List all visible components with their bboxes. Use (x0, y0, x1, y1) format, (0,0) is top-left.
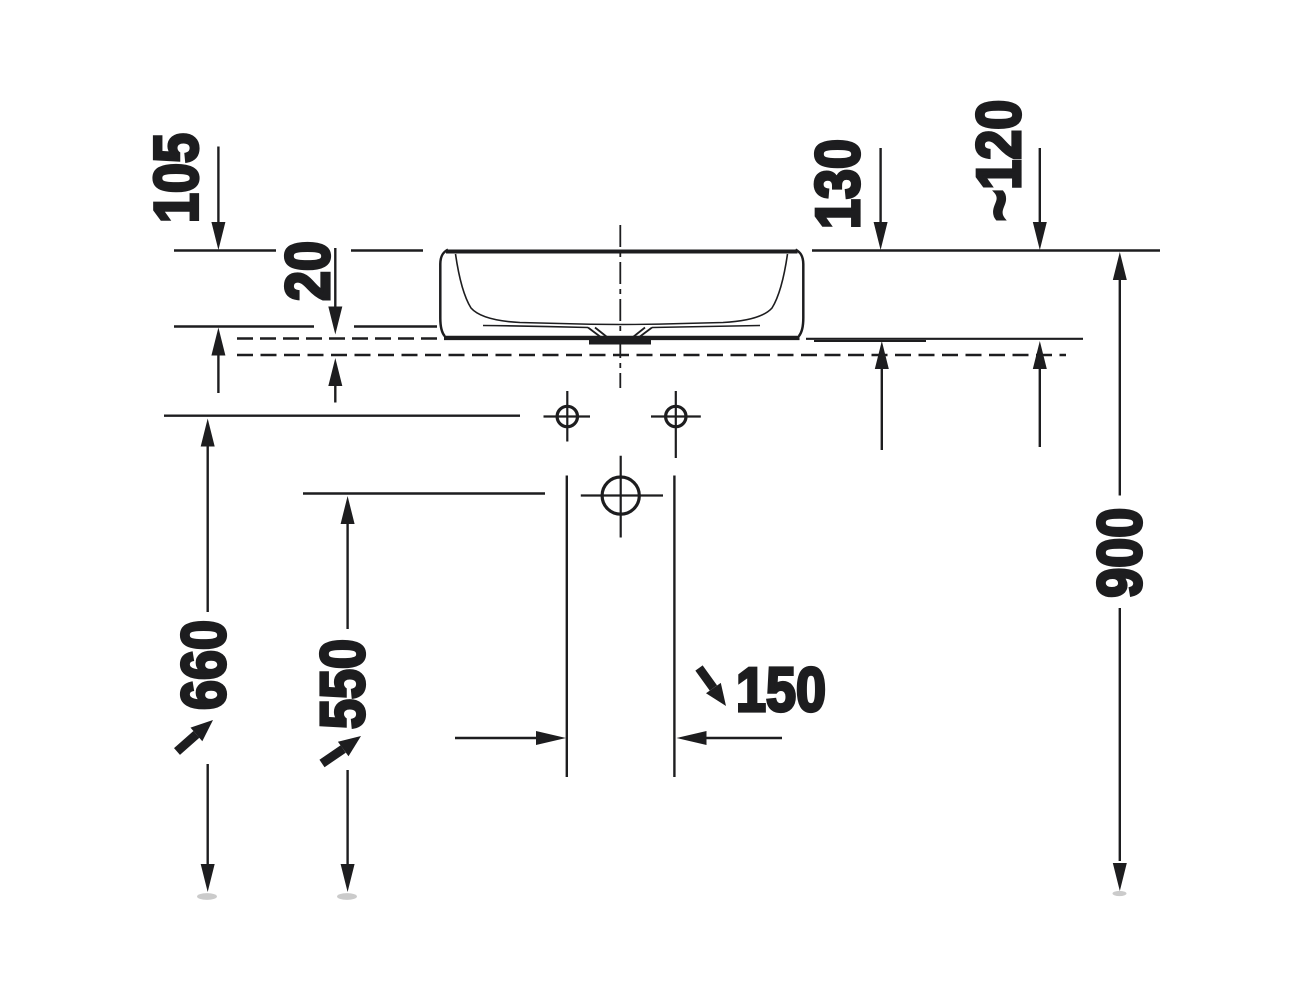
svg-text:~120: ~120 (965, 100, 1034, 221)
svg-text:550: 550 (309, 639, 378, 729)
svg-text:130: 130 (804, 139, 873, 229)
svg-text:150: 150 (736, 656, 826, 725)
svg-text:20: 20 (274, 241, 343, 301)
svg-text:900: 900 (1086, 508, 1155, 598)
svg-text:660: 660 (170, 620, 239, 710)
svg-text:105: 105 (142, 133, 211, 223)
